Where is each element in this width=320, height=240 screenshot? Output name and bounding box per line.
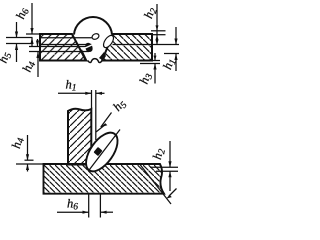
h2 up arrow <box>169 171 171 191</box>
h5 inner diagonal line <box>90 130 121 170</box>
pore P1 small <box>91 33 100 41</box>
h3 up arrow <box>154 64 156 84</box>
left plate (hatched) <box>38 32 88 63</box>
label h5 <box>0 50 14 66</box>
diagonal level line bottom right <box>140 165 171 205</box>
plate top extension left <box>26 33 40 35</box>
label h4 (bottom fig) <box>9 136 27 150</box>
h1 extension line (plate face) <box>91 90 93 109</box>
dark defect in nugget <box>93 147 102 156</box>
h2 level lines right <box>150 166 178 168</box>
h5 tick <box>96 124 106 132</box>
root junction wedge left <box>81 50 86 61</box>
plate bottom extension right <box>152 60 160 62</box>
root bump <box>88 59 103 63</box>
bottom-right diagonal arrow <box>169 189 177 197</box>
h6 dim stem down <box>31 3 33 34</box>
h6 dim line left w/ right arrow <box>57 211 89 213</box>
h1 dim line right w/ left arrow <box>96 92 105 94</box>
h6 up arrow <box>31 38 33 48</box>
vertical plate <box>66 107 93 165</box>
h1 down arrow <box>175 27 177 45</box>
label h6 <box>13 6 32 22</box>
plate top extension right + stub lines <box>151 30 166 32</box>
level line y51.5 <box>29 51 89 53</box>
level line y37.5 <box>6 37 33 39</box>
weld cap <box>74 17 112 35</box>
level line y53.5 right <box>164 53 179 55</box>
slag inclusion dark <box>85 43 92 52</box>
h4 up arrow <box>27 164 29 172</box>
h6 extension lines <box>88 195 90 218</box>
label h4 <box>20 59 39 75</box>
level line y46.5 <box>29 46 86 48</box>
right plate (hatched) <box>100 32 154 63</box>
root junction wedge right <box>99 52 106 61</box>
h2 stem with arrow at 44.5 <box>156 4 158 45</box>
h5 down arrow <box>16 22 18 38</box>
label h2 <box>141 5 160 21</box>
h3 upper stub <box>154 53 156 60</box>
label h3 <box>137 71 156 87</box>
pore P2 on right bevel <box>102 34 116 50</box>
label h5 (bottom fig) <box>110 96 129 115</box>
h1 level line <box>95 90 97 140</box>
base plate <box>39 161 167 195</box>
h4 level line left <box>25 159 34 161</box>
h4 down arrow <box>27 135 29 160</box>
h4 up arrow <box>37 52 39 78</box>
h1 dim line left w/ right arrow <box>58 92 92 94</box>
h5 stem arrow <box>101 113 112 128</box>
h5 up arrow <box>16 44 18 63</box>
label h2 (bottom fig) <box>150 147 168 161</box>
root level line y63.5 <box>140 63 160 65</box>
h2 down arrow <box>169 141 171 167</box>
level line y43.5 left stub <box>6 43 33 45</box>
h4 down arrow <box>37 39 39 47</box>
level line y44.5 long <box>41 44 92 46</box>
h6 dim line right w/ left arrow <box>100 211 113 213</box>
weld nugget ellipse <box>80 127 124 176</box>
label h1 <box>160 56 179 71</box>
h1 up arrow <box>175 54 177 72</box>
